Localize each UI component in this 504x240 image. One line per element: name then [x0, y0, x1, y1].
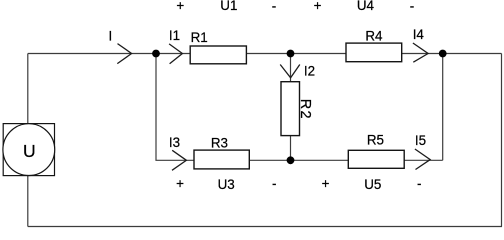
- current arrow I4: [413, 43, 428, 62]
- svg-text:U5: U5: [364, 177, 381, 192]
- resistor R5: [348, 150, 404, 168]
- node D (bottom middle junction): [287, 156, 295, 164]
- resistor R4: [346, 43, 402, 62]
- current arrow I2: [280, 65, 300, 78]
- svg-text:-: -: [410, 0, 414, 14]
- node A (top left junction): [152, 50, 160, 58]
- svg-text:R2: R2: [297, 99, 313, 120]
- resistor R1: [190, 46, 246, 64]
- svg-text:R4: R4: [365, 29, 383, 44]
- wire: bottom return: [28, 226, 502, 228]
- svg-text:+: +: [322, 176, 330, 191]
- svg-text:I4: I4: [413, 27, 425, 42]
- current arrow I: [117, 44, 131, 64]
- svg-text:R3: R3: [211, 136, 228, 151]
- svg-text:I: I: [109, 28, 113, 43]
- svg-text:I1: I1: [169, 28, 180, 43]
- node B (top middle junction): [287, 50, 295, 58]
- voltage source U: circle: [3, 124, 55, 176]
- svg-text:I5: I5: [415, 133, 426, 148]
- current arrow I3: [172, 150, 186, 170]
- voltage source U: square: [3, 124, 54, 176]
- node C (top right junction): [439, 50, 447, 58]
- svg-text:-: -: [272, 176, 276, 191]
- wire: left side lower: [27, 176, 29, 227]
- wire: right branch from bottom row up to node C: [442, 54, 444, 161]
- svg-text:I3: I3: [169, 135, 180, 150]
- resistor R2: [281, 82, 300, 136]
- svg-text:-: -: [417, 176, 421, 191]
- wire: branch from node A down to bottom row: [156, 54, 194, 161]
- svg-text:+: +: [176, 176, 184, 191]
- svg-text:+: +: [314, 0, 322, 13]
- wire: right side: [501, 54, 503, 227]
- wire: middle branch through R2: [290, 54, 292, 161]
- svg-text:U4: U4: [357, 0, 375, 13]
- current arrow I5: [415, 149, 430, 170]
- svg-text:-: -: [272, 0, 276, 14]
- svg-text:U1: U1: [220, 0, 237, 13]
- resistor R3: [194, 150, 249, 169]
- svg-text:R1: R1: [191, 30, 208, 45]
- wire: left side upper: [27, 54, 29, 125]
- wire: top bus: [28, 53, 502, 55]
- svg-text:I2: I2: [304, 63, 315, 78]
- wire: bottom row bus: [194, 159, 443, 161]
- svg-text:U3: U3: [218, 177, 235, 192]
- svg-text:U: U: [23, 141, 36, 161]
- current arrow I1: [169, 44, 182, 64]
- svg-text:+: +: [176, 0, 184, 13]
- svg-text:R5: R5: [367, 132, 384, 147]
